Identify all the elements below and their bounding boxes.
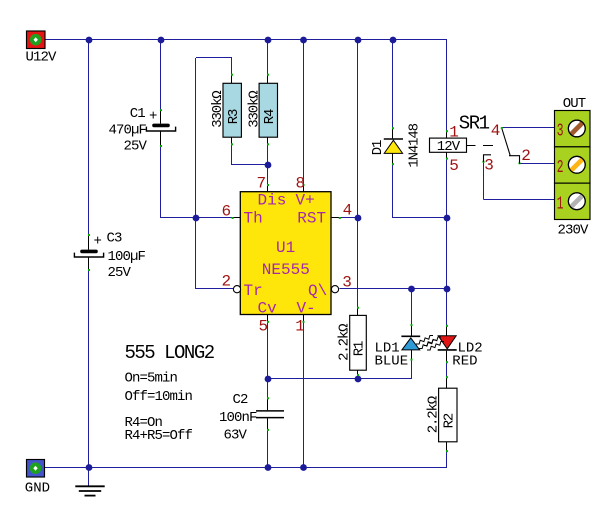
svg-text:RED: RED: [452, 353, 477, 369]
svg-text:2.2kΩ: 2.2kΩ: [425, 396, 441, 433]
svg-text:GND: GND: [25, 481, 50, 497]
svg-text:1: 1: [557, 194, 564, 214]
svg-text:2: 2: [557, 158, 564, 178]
svg-text:2: 2: [521, 147, 531, 165]
svg-text:7: 7: [257, 175, 267, 193]
svg-text:3: 3: [557, 122, 564, 142]
svg-text:+: +: [94, 234, 102, 250]
svg-text:Dis: Dis: [258, 192, 287, 210]
svg-text:Off=10min: Off=10min: [125, 389, 193, 405]
svg-text:555 LONG2: 555 LONG2: [125, 342, 215, 364]
svg-text:Q\: Q\: [308, 282, 327, 300]
svg-text:C3: C3: [107, 231, 123, 247]
svg-text:5: 5: [259, 318, 269, 336]
svg-text:2.2kΩ: 2.2kΩ: [336, 324, 352, 361]
svg-text:2: 2: [222, 273, 232, 291]
svg-text:230V: 230V: [558, 222, 590, 238]
svg-text:V-: V-: [297, 300, 316, 318]
svg-text:25V: 25V: [123, 138, 147, 154]
svg-text:3: 3: [342, 274, 352, 292]
svg-text:BLUE: BLUE: [375, 353, 409, 369]
svg-text:6: 6: [222, 203, 232, 221]
svg-text:25V: 25V: [108, 265, 132, 281]
svg-text:C1: C1: [130, 106, 146, 122]
svg-text:SR1: SR1: [459, 112, 490, 134]
svg-text:R3: R3: [226, 109, 242, 124]
svg-text:1N4148: 1N4148: [406, 123, 422, 167]
svg-text:On=5min: On=5min: [125, 371, 178, 387]
svg-text:330kΩ: 330kΩ: [210, 91, 226, 128]
svg-text:R4: R4: [262, 109, 278, 124]
svg-text:U1: U1: [276, 239, 295, 257]
svg-text:U12V: U12V: [26, 50, 58, 66]
svg-text:NE555: NE555: [262, 261, 310, 279]
svg-text:100nF: 100nF: [219, 410, 257, 426]
svg-text:3: 3: [484, 156, 494, 174]
svg-text:R2: R2: [441, 413, 457, 428]
svg-text:Tr: Tr: [244, 282, 263, 300]
svg-text:63V: 63V: [224, 428, 248, 444]
svg-text:C2: C2: [233, 392, 249, 408]
svg-text:Th: Th: [244, 209, 263, 227]
svg-text:12V: 12V: [437, 139, 461, 155]
svg-text:V+: V+: [296, 192, 315, 210]
svg-text:OUT: OUT: [563, 96, 586, 112]
svg-text:1: 1: [295, 318, 305, 336]
svg-text:8: 8: [296, 175, 306, 193]
svg-text:4: 4: [343, 202, 353, 220]
svg-text:D1: D1: [370, 140, 386, 155]
svg-text:RST: RST: [297, 209, 326, 227]
svg-text:5: 5: [449, 157, 459, 175]
svg-text:+: +: [149, 109, 157, 125]
svg-text:R4+R5=Off: R4+R5=Off: [125, 428, 193, 444]
svg-text:100µF: 100µF: [108, 249, 146, 265]
svg-text:R1: R1: [352, 341, 368, 356]
svg-text:470µF: 470µF: [108, 122, 146, 138]
svg-text:Cv: Cv: [258, 300, 278, 318]
svg-text:1: 1: [449, 123, 459, 141]
svg-text:4: 4: [491, 122, 501, 140]
svg-text:330kΩ: 330kΩ: [246, 91, 262, 128]
